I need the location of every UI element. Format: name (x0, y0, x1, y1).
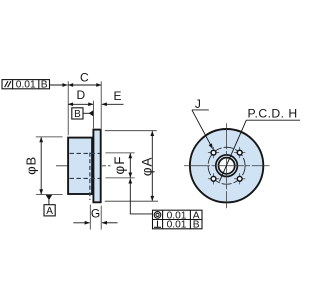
svg-text:φB: φB (24, 156, 39, 175)
datum B symbol (72, 108, 94, 120)
svg-text:φA: φA (139, 156, 154, 176)
label J with leader to bolt hole (192, 97, 213, 148)
concentricity symbol (154, 212, 161, 219)
svg-text:J: J (195, 97, 201, 111)
svg-text:0.01: 0.01 (167, 220, 187, 231)
hidden bore lines (dashed) (70, 153, 101, 201)
parallelism feature control frame (top left) (2, 80, 50, 89)
svg-text:B: B (74, 109, 81, 120)
svg-text:B: B (41, 79, 48, 90)
hub body (cylinder, side view) (68, 138, 92, 194)
extension line plate left face (top) (92, 101, 94, 129)
svg-text:B: B (193, 220, 200, 231)
extension line hub left face (67, 81, 69, 135)
leader from runout FCF up to phi-F dimension (130, 179, 152, 214)
svg-text:P.C.D. H: P.C.D. H (248, 106, 298, 120)
svg-text:φF: φF (112, 156, 127, 175)
centerlines (front view) (184, 123, 270, 208)
bolt hole top-left with tick marks (208, 147, 219, 158)
dimension G (plate width, bottom) (90, 205, 101, 230)
leader from FCF to hub left face (50, 84, 68, 86)
hidden counterbore face (vertical dashed) (89, 153, 91, 201)
svg-text:E: E (113, 89, 121, 103)
svg-text:G: G (91, 207, 100, 221)
bolt hole top-right with tick marks (234, 147, 245, 158)
dimension phi-A (flange OD) extension lines (105, 131, 158, 202)
svg-text:0.01: 0.01 (16, 79, 36, 90)
datum A symbol (44, 195, 55, 217)
bolt hole bottom-right with tick marks (234, 173, 245, 184)
center bore (219, 158, 235, 174)
svg-text:C: C (80, 70, 89, 84)
perpendicularity symbol (154, 221, 161, 228)
svg-text:A: A (46, 206, 53, 217)
dimension phi-F (bolt hole span) extension lines (105, 153, 134, 178)
bolt hole bottom-left with tick marks (208, 173, 219, 184)
stacked feature control frame (runout / perpendicularity) (153, 210, 203, 229)
dimension phi-A line (151, 131, 153, 201)
dimension E (plate thickness) (102, 103, 124, 105)
dimension phi-F line (129, 153, 131, 177)
flange plate (side view) (93, 130, 100, 203)
svg-text:D: D (76, 88, 85, 102)
counterbore circle (216, 155, 238, 177)
flange outer circle (190, 129, 263, 202)
dimension C (overall width) (68, 84, 101, 86)
dimension D (hub length) (68, 103, 93, 105)
extension line plate right face (top) (100, 81, 102, 128)
P.C.D. circle (bolt circle) (208, 147, 245, 184)
centerline (side view) (56, 165, 111, 167)
label P.C.D. H with leader to bolt circle (219, 106, 300, 181)
dimension phi-B (hub diameter, left) (36, 137, 63, 195)
